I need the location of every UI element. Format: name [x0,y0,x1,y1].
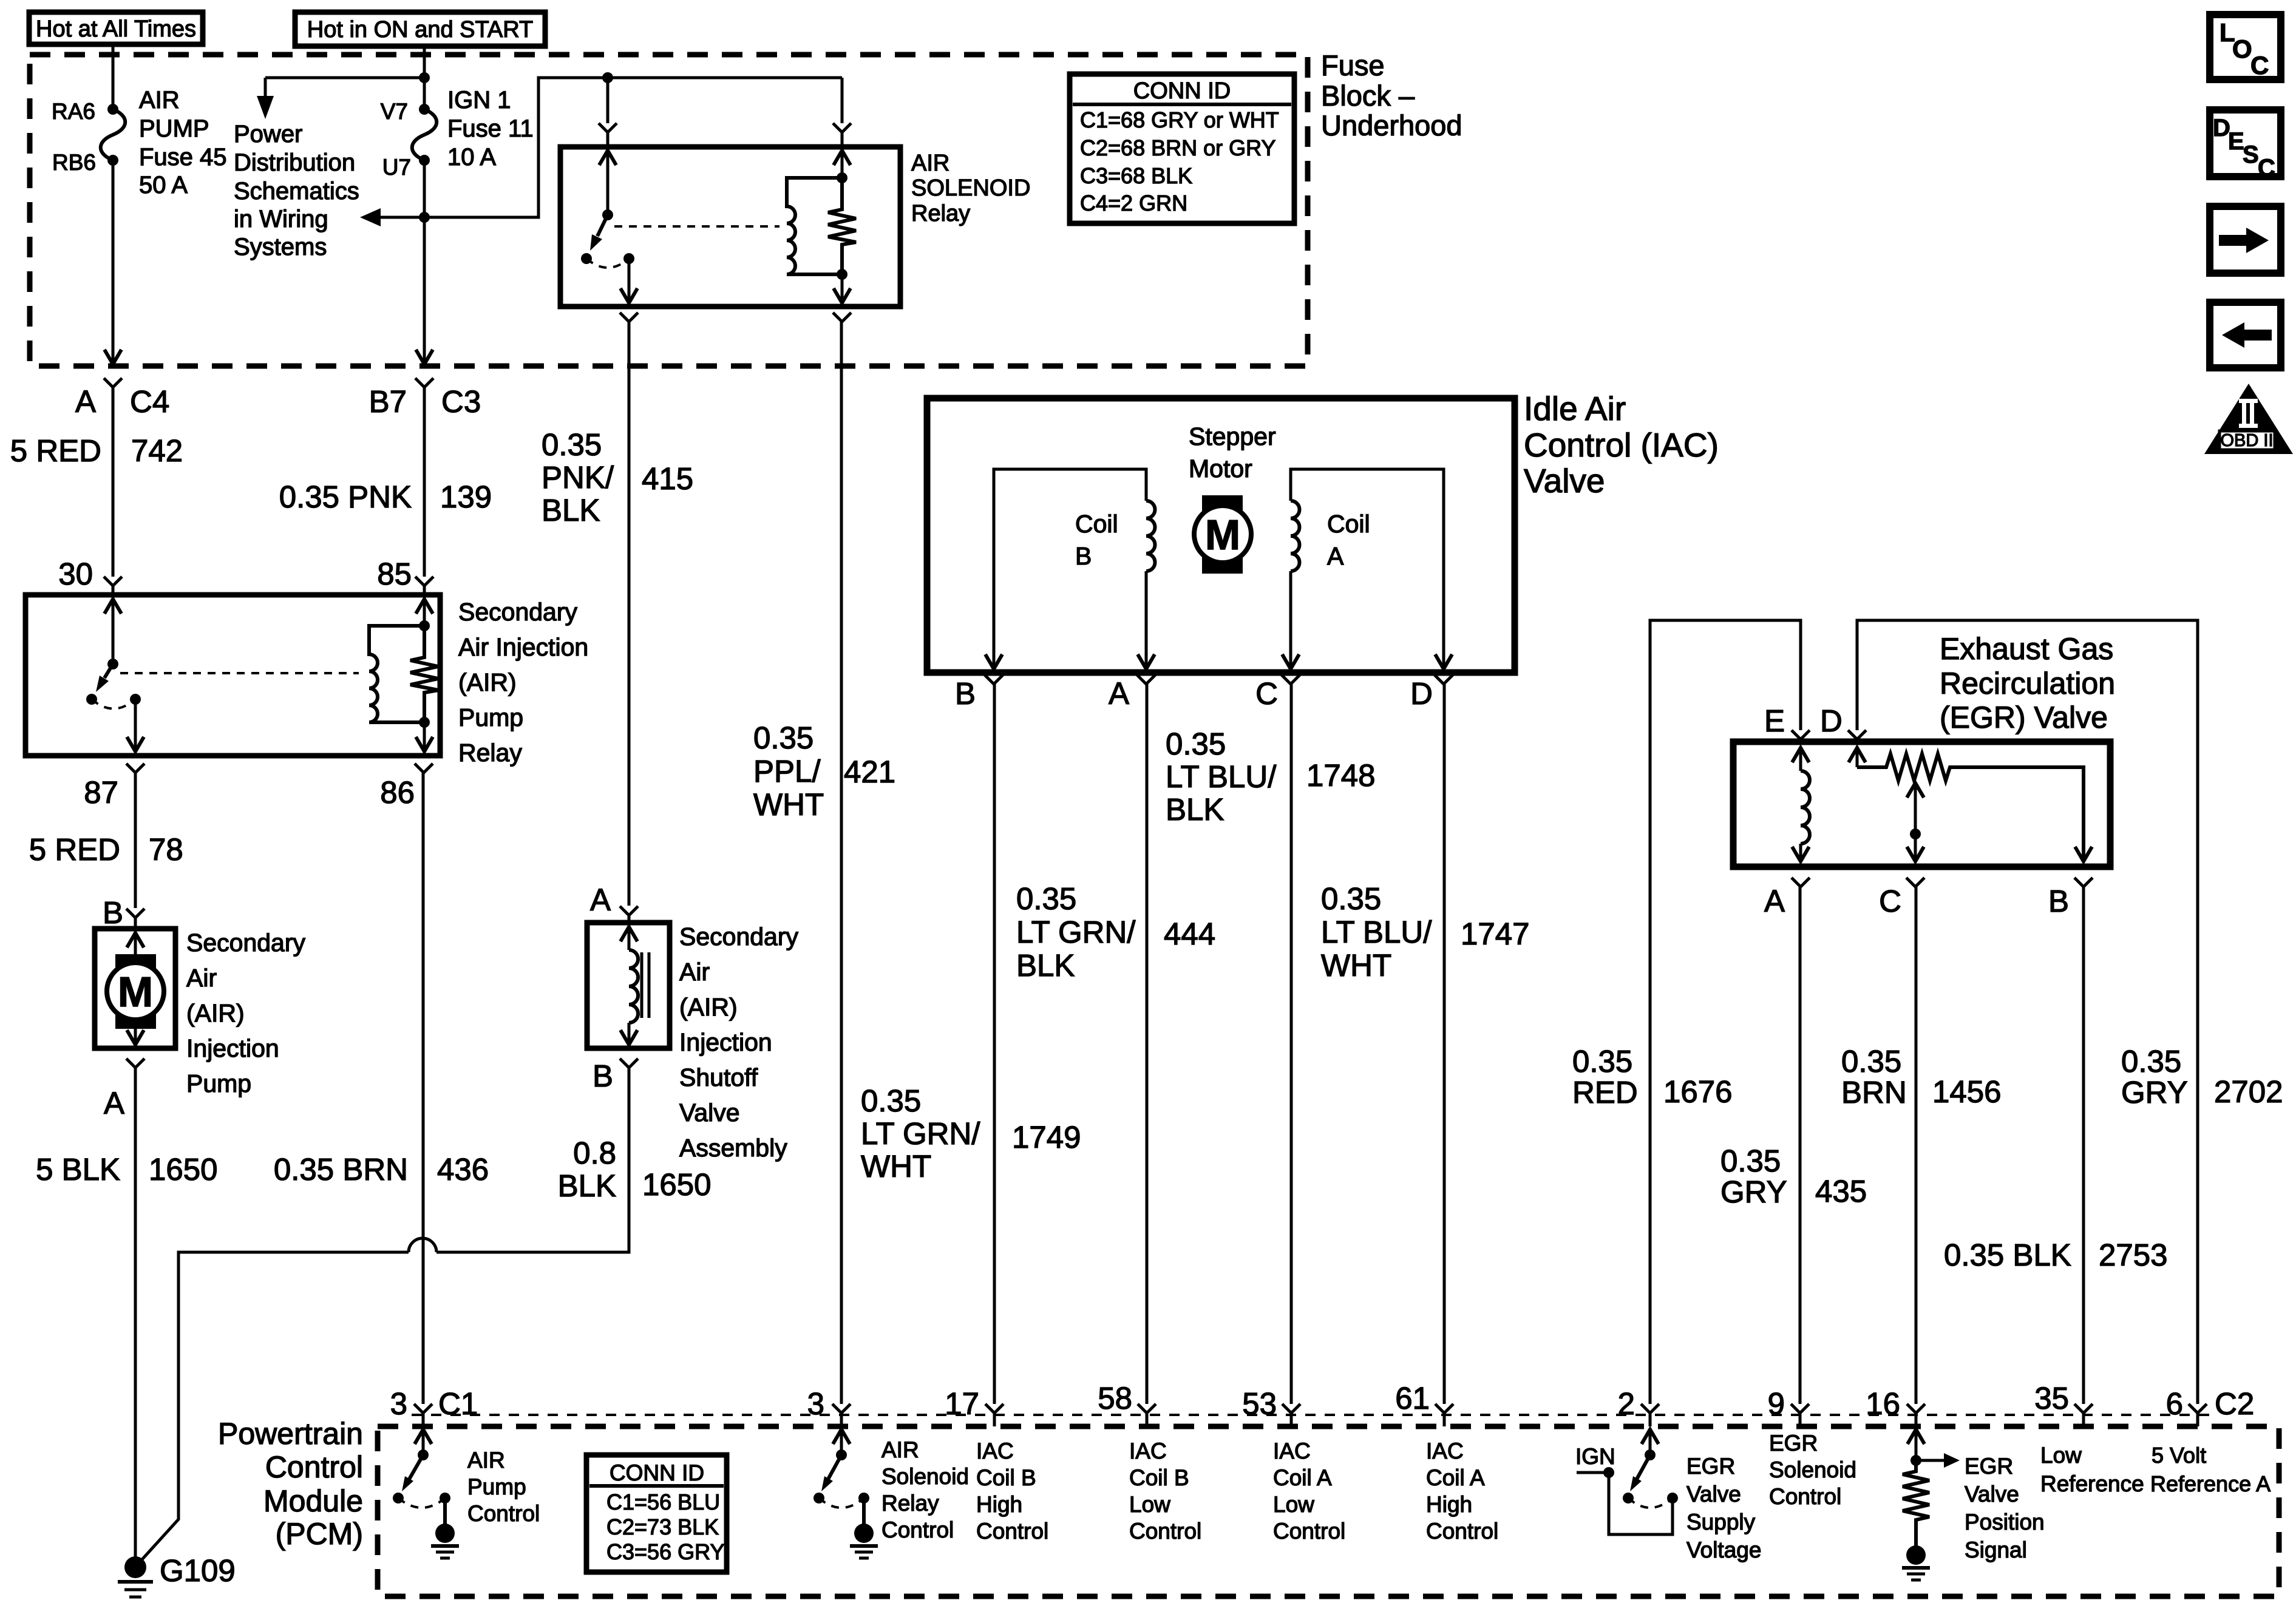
wire: IGN 1 fuse feed (Hot in ON and START) [416,46,433,364]
PCM CONN ID table [586,1455,727,1572]
svg-text:Position: Position [1965,1510,2045,1534]
svg-text:Recirculation: Recirculation [1940,666,2115,700]
label box: Hot at All Times [29,12,203,44]
PCM connector dashed line [412,1414,2211,1416]
label: Power Distribution Schematics in Wiring Systems [234,121,359,260]
svg-text:5 RED: 5 RED [29,832,120,867]
svg-text:C3=56 GRY: C3=56 GRY [606,1539,724,1564]
svg-text:AIR: AIR [881,1437,919,1462]
svg-text:0.35: 0.35 [1321,881,1381,916]
svg-text:B: B [593,1059,613,1093]
PCM switch: AIR Solenoid Relay Control [813,1429,969,1558]
svg-text:IAC: IAC [976,1439,1014,1463]
svg-text:IAC: IAC [1129,1439,1167,1463]
wire: PPL/WHT 421 from relay coil to PCM [753,313,895,1404]
icon: LOC box [2210,15,2281,80]
svg-text:EGR: EGR [1965,1454,2013,1479]
wire: 0.35 BRN 436 relay 86 to PCM [274,764,489,1404]
svg-text:Control: Control [467,1501,540,1526]
svg-text:17: 17 [945,1386,979,1421]
svg-text:Pump: Pump [186,1070,251,1097]
relay switch (AIR solenoid relay) [581,151,637,303]
label: IAC Coil A Low Control [1273,1439,1345,1544]
svg-text:IAC: IAC [1426,1439,1464,1463]
svg-text:IGN: IGN [1575,1444,1615,1469]
svg-text:78: 78 [149,832,183,867]
svg-text:Fuse 45: Fuse 45 [139,144,227,171]
svg-text:Signal: Signal [1965,1537,2027,1562]
IAC coil A [1282,469,1452,669]
label: Secondary Air (AIR) Injection Shutoff Valve Assembly [679,923,799,1162]
svg-text:30: 30 [58,557,93,591]
svg-text:Control: Control [1426,1519,1498,1544]
svg-text:C3=68 BLK: C3=68 BLK [1080,163,1192,188]
svg-text:B7: B7 [369,384,407,419]
label: Stepper Motor [1189,422,1276,483]
wire: AIR PUMP fuse feed (Hot at All Times) [104,44,121,364]
svg-text:A: A [75,384,96,419]
label: Secondary Air (AIR) Injection Pump [186,929,306,1097]
svg-text:U7: U7 [382,155,411,180]
wire: IAC D coil LT BLU/WHT 1747 [1321,675,1529,1404]
label: 5 Volt Reference A [2150,1443,2271,1496]
label: IAC Coil A High Control [1426,1439,1498,1544]
svg-text:LT BLU/: LT BLU/ [1166,759,1277,794]
EGR solenoid coil [1792,748,1810,861]
connector B7 / C3 [279,378,492,591]
motor: Secondary Air (AIR) Injection Pump [95,909,175,1048]
wire: power distribution branch [257,72,430,119]
svg-text:IAC: IAC [1273,1439,1311,1463]
svg-text:Secondary: Secondary [458,598,578,626]
wire: 0.8 BLK 1650 shutoff valve to ground junction [436,1059,711,1252]
svg-text:Injection: Injection [186,1034,279,1062]
svg-text:RED: RED [1572,1075,1638,1110]
svg-text:Secondary: Secondary [679,923,799,951]
svg-text:Coil B: Coil B [1129,1465,1189,1490]
svg-text:Motor: Motor [1189,455,1252,483]
IAC valve box [927,398,1515,673]
svg-text:A: A [1327,542,1344,570]
svg-text:IGN 1: IGN 1 [447,87,511,114]
relay box: Secondary Air Injection (AIR) Pump Relay [25,595,440,756]
svg-text:O: O [2232,35,2252,63]
wire: EGR A to PCM pin 9 GRY 435 [1720,878,1867,1404]
svg-text:Coil A: Coil A [1426,1465,1485,1490]
svg-text:2702: 2702 [2214,1074,2283,1109]
svg-text:Systems: Systems [234,234,327,260]
svg-text:(EGR) Valve: (EGR) Valve [1940,700,2108,734]
svg-text:9: 9 [1768,1386,1785,1421]
wire: EGR B to PCM pin 35 BLK 2753 [1944,878,2167,1404]
svg-text:Supply: Supply [1686,1510,1756,1534]
svg-text:High: High [976,1492,1022,1517]
IAC coil B [985,469,1155,669]
svg-text:D: D [1410,676,1433,711]
svg-text:AIR: AIR [911,151,949,176]
wire: relay feed run with left arrow to power distribution [360,72,842,226]
icon: OBD II symbol [2204,384,2293,454]
svg-text:Assembly: Assembly [679,1134,787,1162]
svg-text:1747: 1747 [1461,917,1529,951]
svg-text:A: A [1764,884,1785,918]
connector A / C4 [10,378,183,591]
svg-text:Air Injection: Air Injection [458,633,588,661]
wire: IAC A coil high LT GRN/BLK 444 [1016,675,1215,1404]
svg-text:Distribution: Distribution [234,149,355,176]
svg-text:Block –: Block – [1321,80,1415,112]
svg-text:EGR: EGR [1686,1454,1735,1479]
label: Idle Air Control (IAC) Valve [1524,390,1719,500]
svg-text:(PCM): (PCM) [276,1517,363,1551]
svg-text:C3: C3 [441,384,481,419]
svg-text:LT GRN/: LT GRN/ [1016,915,1136,949]
svg-text:in Wiring: in Wiring [234,206,328,232]
PCM dashed border [378,1426,2279,1596]
svg-text:Power: Power [234,121,302,147]
wire: AIR solenoid relay coil feed drop [833,78,851,147]
svg-text:(AIR): (AIR) [186,999,245,1027]
svg-text:CONN ID: CONN ID [610,1460,704,1485]
svg-text:AIR: AIR [139,87,180,114]
svg-text:RB6: RB6 [52,150,96,175]
svg-text:C1=56 BLU: C1=56 BLU [606,1490,720,1514]
connector pin 6 C2 [2166,1386,2255,1426]
connector pin 9 [1768,1386,1809,1426]
label: AIR SOLENOID Relay [911,151,1030,226]
svg-text:PPL/: PPL/ [753,754,821,788]
CONN ID table (fuse block) [1070,74,1294,223]
svg-text:Control: Control [1129,1519,1201,1544]
EGR position sensor potentiometer [1849,748,2092,861]
relay switch (AIR pump relay) [86,577,144,751]
svg-text:Hot at All Times: Hot at All Times [36,16,196,42]
wire: ground run hop over 436 wire [137,1238,436,1565]
svg-text:PUMP: PUMP [139,115,209,142]
svg-text:(AIR): (AIR) [458,668,517,696]
svg-text:1650: 1650 [149,1152,217,1187]
svg-text:444: 444 [1164,917,1215,951]
svg-text:B: B [103,895,123,930]
svg-text:C2=68 BRN or GRY: C2=68 BRN or GRY [1080,135,1275,160]
svg-text:WHT: WHT [861,1149,931,1184]
connector pin 61 [1395,1381,1453,1426]
label: IAC Coil B Low Control [1129,1439,1201,1544]
svg-text:C4=2 GRN: C4=2 GRN [1080,191,1187,215]
wire: AIR solenoid relay switch feed [599,78,617,147]
svg-text:Solenoid: Solenoid [1769,1457,1856,1482]
svg-text:Fuse 11: Fuse 11 [447,115,534,142]
svg-text:Idle Air: Idle Air [1524,390,1626,427]
svg-text:1676: 1676 [1663,1074,1732,1109]
svg-text:0.8: 0.8 [573,1136,616,1170]
wire: PNK/BLK 415 from relay switch to shutoff valve [542,313,693,906]
svg-text:Secondary: Secondary [186,929,306,957]
icon: DESC box [2210,110,2281,181]
svg-text:1456: 1456 [1932,1074,2001,1109]
svg-text:C2: C2 [2215,1386,2254,1421]
svg-text:1650: 1650 [642,1167,711,1202]
svg-text:Pump: Pump [467,1474,526,1499]
svg-text:BLK: BLK [542,493,600,527]
wire: 5 BLK 1650 pump to ground [36,1059,217,1560]
svg-text:Coil: Coil [1327,510,1370,538]
svg-text:0.35 BRN: 0.35 BRN [274,1152,408,1187]
svg-text:Control: Control [1273,1519,1345,1544]
svg-text:WHT: WHT [753,787,824,822]
svg-text:1748: 1748 [1306,758,1375,793]
relay K: AIR SOLENOID Relay box [560,147,900,307]
svg-text:PNK/: PNK/ [542,460,614,495]
svg-text:LT BLU/: LT BLU/ [1321,915,1432,949]
svg-text:C: C [2250,51,2269,80]
IAC stepper motor symbol [1194,495,1251,574]
svg-text:S: S [2243,141,2259,168]
svg-text:Injection: Injection [679,1028,772,1056]
svg-text:V7: V7 [381,99,408,124]
icon: back arrow box [2210,302,2281,368]
svg-text:53: 53 [1242,1386,1277,1421]
fuse: IGN 1 Fuse 11 10 A [381,87,534,180]
svg-text:WHT: WHT [1321,948,1391,983]
svg-text:2: 2 [1618,1386,1635,1421]
svg-text:Relay: Relay [911,201,970,226]
svg-text:Stepper: Stepper [1189,422,1276,450]
svg-text:50 A: 50 A [139,172,188,198]
connector pin 2 [1618,1386,1659,1426]
svg-text:GRY: GRY [1720,1175,1787,1209]
svg-text:Voltage: Voltage [1686,1537,1761,1562]
svg-text:0.35: 0.35 [1572,1044,1632,1079]
svg-text:BLK: BLK [558,1168,616,1203]
svg-text:Valve: Valve [1965,1482,2019,1507]
svg-text:58: 58 [1098,1381,1132,1415]
svg-text:Underhood: Underhood [1321,109,1462,141]
svg-text:1749: 1749 [1012,1120,1081,1154]
svg-text:35: 35 [2034,1381,2069,1415]
connector pin 17 [945,1386,1004,1426]
svg-text:(AIR): (AIR) [679,993,738,1021]
svg-text:BLK: BLK [1016,948,1075,983]
svg-text:C: C [2258,155,2275,181]
svg-text:Shutoff: Shutoff [679,1063,758,1091]
svg-text:B: B [2048,884,2069,918]
PCM switch: EGR valve supply voltage (IGN) [1575,1429,1761,1562]
svg-text:Schematics: Schematics [234,178,359,205]
fuse: AIR PUMP Fuse 45 50 A [52,87,227,198]
svg-text:A: A [104,1086,124,1120]
PCM switch: AIR Pump Control [393,1429,540,1558]
svg-text:Relay: Relay [458,739,522,767]
svg-text:E: E [1764,703,1785,738]
label: Powertrain Control Module (PCM) [218,1417,363,1551]
svg-text:Relay: Relay [881,1491,939,1516]
svg-text:415: 415 [642,461,693,496]
svg-text:A: A [1109,676,1129,711]
svg-text:Hot in ON and START: Hot in ON and START [307,17,533,42]
svg-text:Powertrain: Powertrain [218,1417,363,1451]
svg-text:0.35: 0.35 [861,1083,921,1118]
svg-text:RA6: RA6 [52,99,95,124]
svg-text:High: High [1426,1492,1472,1517]
svg-text:D: D [1820,703,1843,738]
relay coil + resistor (AIR pump relay) [120,577,438,751]
svg-text:Reference A: Reference A [2150,1471,2271,1496]
svg-text:10 A: 10 A [447,144,496,171]
svg-text:M: M [1205,511,1240,558]
ground G109 [118,1553,236,1597]
connector pin 35 [2034,1381,2093,1426]
EGR valve box [1733,742,2110,867]
svg-text:16: 16 [1866,1386,1900,1421]
svg-text:B: B [955,676,976,711]
svg-text:Coil A: Coil A [1273,1465,1332,1490]
label box: Hot in ON and START [295,12,545,46]
svg-text:BLK: BLK [1166,792,1224,827]
svg-text:Valve: Valve [679,1099,740,1127]
wire: 5 RED 78 relay 87 to pump [29,764,183,930]
icon: next arrow box [2210,206,2281,273]
svg-text:742: 742 [131,433,183,468]
svg-text:Pump: Pump [458,703,523,731]
label: Exhaust Gas Recirculation (EGR) Valve [1940,632,2115,734]
svg-text:5 BLK: 5 BLK [36,1152,120,1187]
connector pin 53 [1242,1386,1300,1426]
svg-text:436: 436 [437,1152,489,1187]
svg-text:Coil: Coil [1075,510,1118,538]
svg-text:EGR: EGR [1769,1431,1818,1456]
svg-text:0.35: 0.35 [1720,1144,1781,1178]
svg-text:C1: C1 [438,1386,478,1421]
svg-text:Control (IAC): Control (IAC) [1524,426,1719,464]
svg-text:Module: Module [263,1484,363,1518]
svg-text:Valve: Valve [1524,462,1605,500]
svg-text:0.35: 0.35 [1841,1044,1901,1079]
svg-text:G109: G109 [160,1553,236,1588]
connector pin 58 [1098,1381,1156,1426]
svg-text:Control: Control [976,1519,1048,1544]
svg-text:0.35: 0.35 [542,427,602,462]
svg-text:Low: Low [1273,1492,1314,1517]
connector pin 3 (solenoid relay control) [807,1386,851,1426]
svg-text:AIR: AIR [467,1448,505,1473]
svg-text:Fuse: Fuse [1321,49,1385,81]
svg-text:435: 435 [1815,1174,1867,1209]
svg-text:0.35 BLK: 0.35 BLK [1944,1238,2071,1272]
svg-text:C4: C4 [130,384,169,419]
svg-text:Valve: Valve [1686,1482,1741,1507]
label: Fuse Block - Underhood [1321,49,1462,141]
svg-text:CONN ID: CONN ID [1133,78,1231,104]
label: EGR Solenoid Control [1769,1431,1856,1509]
svg-text:6: 6 [2166,1386,2183,1421]
svg-text:C: C [1255,676,1278,711]
svg-text:OBD II: OBD II [2220,431,2273,450]
PCM pin 16 sense resistor: EGR Valve Position Signal [1902,1429,2045,1580]
svg-text:2753: 2753 [2099,1238,2167,1272]
wire: EGR E feed loop to PCM pin 2 [1572,620,1810,1404]
relay coil + resistor (AIR solenoid relay) [614,151,856,303]
label: Secondary Air Injection (AIR) Pump Relay [458,598,588,767]
svg-text:A: A [590,883,611,917]
svg-text:Control: Control [1769,1484,1841,1509]
svg-text:Exhaust Gas: Exhaust Gas [1940,632,2113,666]
wire: IAC B coil low LT GRN/WHT 1749 [861,675,1081,1404]
svg-text:M: M [118,968,153,1015]
svg-text:Low: Low [2040,1443,2082,1468]
svg-text:LT GRN/: LT GRN/ [861,1116,980,1151]
svg-text:SOLENOID: SOLENOID [911,175,1030,201]
fuse block dashed border [30,55,1308,366]
wire: EGR D loop to PCM pin 6 [1820,620,2283,1404]
svg-text:Reference: Reference [2040,1471,2144,1496]
wire: IAC C coil LT BLU/BLK 1748 [1166,675,1375,1404]
svg-text:Low: Low [1129,1492,1170,1517]
svg-text:C: C [1879,884,1901,918]
svg-text:E: E [2228,128,2244,155]
label: Low Reference [2040,1443,2144,1496]
svg-text:3: 3 [807,1386,824,1421]
svg-text:BRN: BRN [1841,1075,1907,1110]
svg-text:C2=73 BLK: C2=73 BLK [606,1514,719,1539]
svg-text:Air: Air [679,958,710,986]
svg-text:Control: Control [881,1517,954,1542]
svg-text:87: 87 [84,775,118,810]
svg-text:Air: Air [186,964,217,992]
solenoid valve: Secondary Air Injection Shutoff Valve Assembly [587,883,670,1093]
svg-text:421: 421 [844,754,895,789]
svg-text:139: 139 [440,480,492,514]
svg-text:0.35: 0.35 [2121,1044,2181,1079]
connector pin 3 C1 [390,1386,478,1426]
svg-text:Solenoid: Solenoid [881,1464,969,1489]
svg-text:Coil B: Coil B [976,1465,1036,1490]
svg-text:0.35: 0.35 [753,720,813,755]
svg-text:B: B [1075,542,1092,570]
svg-text:Control: Control [265,1450,363,1484]
wire: EGR C to PCM pin 16 BRN 1456 [1841,878,2001,1404]
label: IAC Coil B High Control [976,1439,1048,1544]
svg-text:GRY: GRY [2121,1075,2188,1110]
connector pin 16 [1866,1386,1925,1426]
svg-text:5 RED: 5 RED [10,433,101,468]
svg-text:61: 61 [1395,1381,1430,1415]
svg-text:3: 3 [390,1386,407,1421]
svg-text:5 Volt: 5 Volt [2152,1443,2206,1468]
svg-text:85: 85 [377,557,412,591]
svg-text:0.35 PNK: 0.35 PNK [279,480,412,514]
svg-text:86: 86 [380,775,415,810]
svg-text:0.35: 0.35 [1166,727,1226,761]
svg-text:0.35: 0.35 [1016,881,1076,916]
svg-text:C1=68 GRY or WHT: C1=68 GRY or WHT [1080,107,1279,132]
